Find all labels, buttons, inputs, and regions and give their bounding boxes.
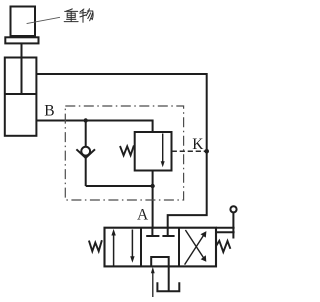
piston rod	[21, 43, 23, 94]
wire: check valve branch upper	[85, 121, 87, 148]
label 重物 (drawn strokes)	[64, 9, 93, 22]
node: pilot junction dot	[204, 149, 209, 154]
svg-text:A: A	[137, 207, 149, 224]
center A port blocked stub	[151, 228, 153, 236]
pump supply arrow P	[152, 271, 154, 297]
lever mount lines	[216, 206, 237, 238]
wire: bottom of bypass branch	[86, 185, 153, 187]
divider center/right	[178, 228, 180, 267]
svg-text:K: K	[192, 136, 204, 153]
cylinder body	[5, 58, 37, 136]
center B port blocked stub	[167, 228, 169, 236]
enclosure (dash-dot box of the valve unit)	[65, 106, 183, 200]
wire: balance valve outlet down to node A	[152, 171, 154, 187]
tank symbol	[157, 282, 179, 291]
node A junction dot	[150, 184, 154, 188]
weight block	[11, 7, 36, 37]
directional valve DT body	[105, 228, 217, 267]
tank drain line	[168, 266, 170, 291]
label 重物 leader line	[27, 17, 60, 23]
balance valve internal arrow	[162, 134, 164, 162]
wire: cap-side port (node B) to balance valve inlet	[36, 121, 152, 133]
check valve	[81, 147, 90, 156]
center P-T unloading notch	[151, 257, 169, 266]
left position: down arrow	[131, 230, 133, 258]
right position: crossed arrows	[185, 234, 205, 264]
spring W of balance valve	[120, 145, 134, 155]
divider left/center	[140, 228, 142, 267]
weight platform	[5, 37, 38, 43]
balance valve body	[135, 132, 172, 171]
lever rod	[232, 213, 234, 239]
spring (left, W) of directional valve	[89, 240, 102, 251]
svg-text:B: B	[44, 102, 54, 119]
lever knob	[230, 206, 236, 212]
spring (right) of directional valve	[216, 241, 231, 252]
wire: check valve lower	[85, 158, 87, 186]
piston	[5, 93, 37, 95]
wire: node A down to directional valve port A	[152, 186, 154, 228]
wire: rod-side port to valve B port	[36, 74, 206, 228]
left position: up arrow	[111, 229, 206, 297]
node: junction dot on B line	[84, 118, 88, 122]
pilot line K (dashed)	[172, 150, 207, 152]
